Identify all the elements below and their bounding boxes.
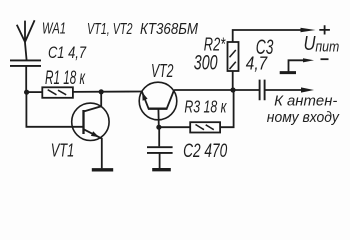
svg-text:пит: пит (315, 40, 339, 56)
svg-text:VT2: VT2 (151, 60, 174, 81)
svg-text:К антен-: К антен- (274, 92, 337, 109)
svg-text:C2 470: C2 470 (183, 140, 227, 162)
svg-text:C1 4,7: C1 4,7 (48, 44, 87, 62)
svg-text:R3 18 к: R3 18 к (184, 97, 227, 117)
svg-text:300: 300 (194, 51, 218, 75)
svg-text:U: U (304, 33, 316, 55)
svg-text:WA1: WA1 (42, 21, 66, 38)
svg-text:VT1: VT1 (51, 141, 74, 161)
svg-text:R1 18 к: R1 18 к (45, 68, 86, 89)
svg-text:КТ368БМ: КТ368БМ (140, 21, 199, 38)
svg-text:VT1, VT2: VT1, VT2 (87, 21, 133, 38)
svg-text:ному входу: ному входу (267, 109, 340, 126)
svg-text:4,7: 4,7 (246, 52, 268, 73)
